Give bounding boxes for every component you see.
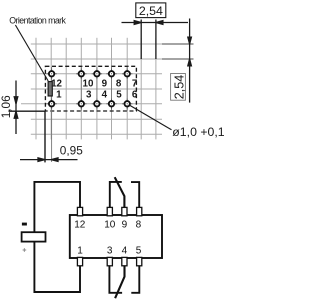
pad number labels (top row) — [51, 78, 138, 89]
svg-text:8: 8 — [136, 220, 142, 231]
coil — [22, 232, 46, 241]
hole pin 4 — [94, 101, 99, 106]
pin stub 4 — [122, 257, 127, 265]
hole pin 7 — [125, 71, 130, 76]
svg-text:2,54: 2,54 — [139, 4, 163, 18]
hole pin 5 — [109, 101, 114, 106]
dimension label box 2,54 (right, rotated) — [171, 74, 187, 101]
svg-text:0,95: 0,95 — [60, 144, 83, 158]
svg-text:3: 3 — [86, 90, 92, 101]
hole pin 6 — [125, 101, 130, 106]
orientation mark — [48, 82, 52, 96]
svg-text:1,06: 1,06 — [0, 95, 13, 118]
svg-text:12: 12 — [74, 220, 86, 231]
relay body — [70, 215, 162, 258]
hole crosshair verticals — [52, 67, 128, 162]
pin stub 5 — [137, 257, 142, 265]
svg-text:9: 9 — [102, 78, 108, 89]
extension lines for top 2,54 dimension — [141, 20, 156, 60]
grid (2.54mm raster) — [21, 38, 162, 140]
hole pin 9 — [94, 71, 99, 76]
pin stub 10 — [107, 207, 112, 215]
svg-text:4: 4 — [102, 90, 108, 101]
extension line (housing edge) for 0,95 dimension — [44, 111, 46, 162]
svg-text:5: 5 — [136, 245, 142, 256]
svg-text:4: 4 — [122, 245, 128, 256]
hole pin 12 — [49, 71, 54, 76]
coil wire loop (pin 12 to pin 1) — [34, 182, 80, 292]
dashed component outline — [45, 66, 136, 111]
svg-text:10: 10 — [104, 220, 116, 231]
svg-text:5: 5 — [116, 90, 122, 101]
svg-text:8: 8 — [116, 78, 122, 89]
contact blade pin 9 — [115, 177, 125, 208]
extension lines for right 2,54 dimension — [162, 44, 194, 59]
dimension line 2,54 vertical (right) — [188, 19, 192, 103]
dimension 0,95 (bottom, horizontal) — [20, 158, 78, 162]
schematic pin labels top — [74, 220, 141, 231]
orientation mark leader line — [15, 25, 48, 81]
hole crosshair ticks — [46, 69, 132, 109]
svg-text:12: 12 — [51, 78, 62, 89]
svg-text:ø1,0 +0,1: ø1,0 +0,1 — [172, 125, 224, 139]
hole pin 8 — [109, 71, 114, 76]
hole pin 10 — [79, 71, 84, 76]
contact fixed terminal pin 10 — [110, 182, 122, 208]
svg-text:7: 7 — [132, 78, 138, 89]
coil polarity minus — [22, 223, 27, 226]
svg-text:3: 3 — [107, 245, 113, 256]
svg-text:1: 1 — [77, 245, 83, 256]
svg-text:2,54: 2,54 — [172, 75, 186, 100]
schematic pin labels bottom — [77, 245, 142, 256]
svg-text:6: 6 — [132, 90, 138, 101]
svg-text:1: 1 — [56, 90, 62, 101]
contact fixed terminal pin 5 — [131, 266, 139, 293]
dimension label box 2,54 (top) — [136, 3, 166, 18]
pin stub 8 — [137, 207, 142, 215]
pin stub 3 — [107, 257, 112, 265]
dimension line 2,54 horizontal (top) — [122, 21, 189, 25]
pin stub 1 — [77, 257, 82, 265]
svg-text:9: 9 — [122, 220, 128, 231]
svg-text:Orientation mark: Orientation mark — [9, 16, 66, 26]
dimension 1,06 (left, vertical) — [14, 81, 18, 135]
pad number labels (bottom row) — [56, 90, 138, 101]
coil polarity plus — [23, 248, 27, 252]
contact fixed terminal pin 3 — [109, 266, 122, 293]
pin stub 12 — [77, 207, 82, 215]
svg-text:10: 10 — [83, 78, 94, 89]
leader line for hole diameter — [129, 105, 172, 130]
contact blade pin 4 — [115, 266, 124, 299]
contact fixed terminal pin 8 — [131, 182, 139, 208]
hole pin 1 — [49, 101, 54, 106]
hole pin 3 — [79, 101, 84, 106]
pin stub 9 — [122, 207, 127, 215]
extension line (housing edge) for 1,06 dimension — [9, 110, 46, 112]
